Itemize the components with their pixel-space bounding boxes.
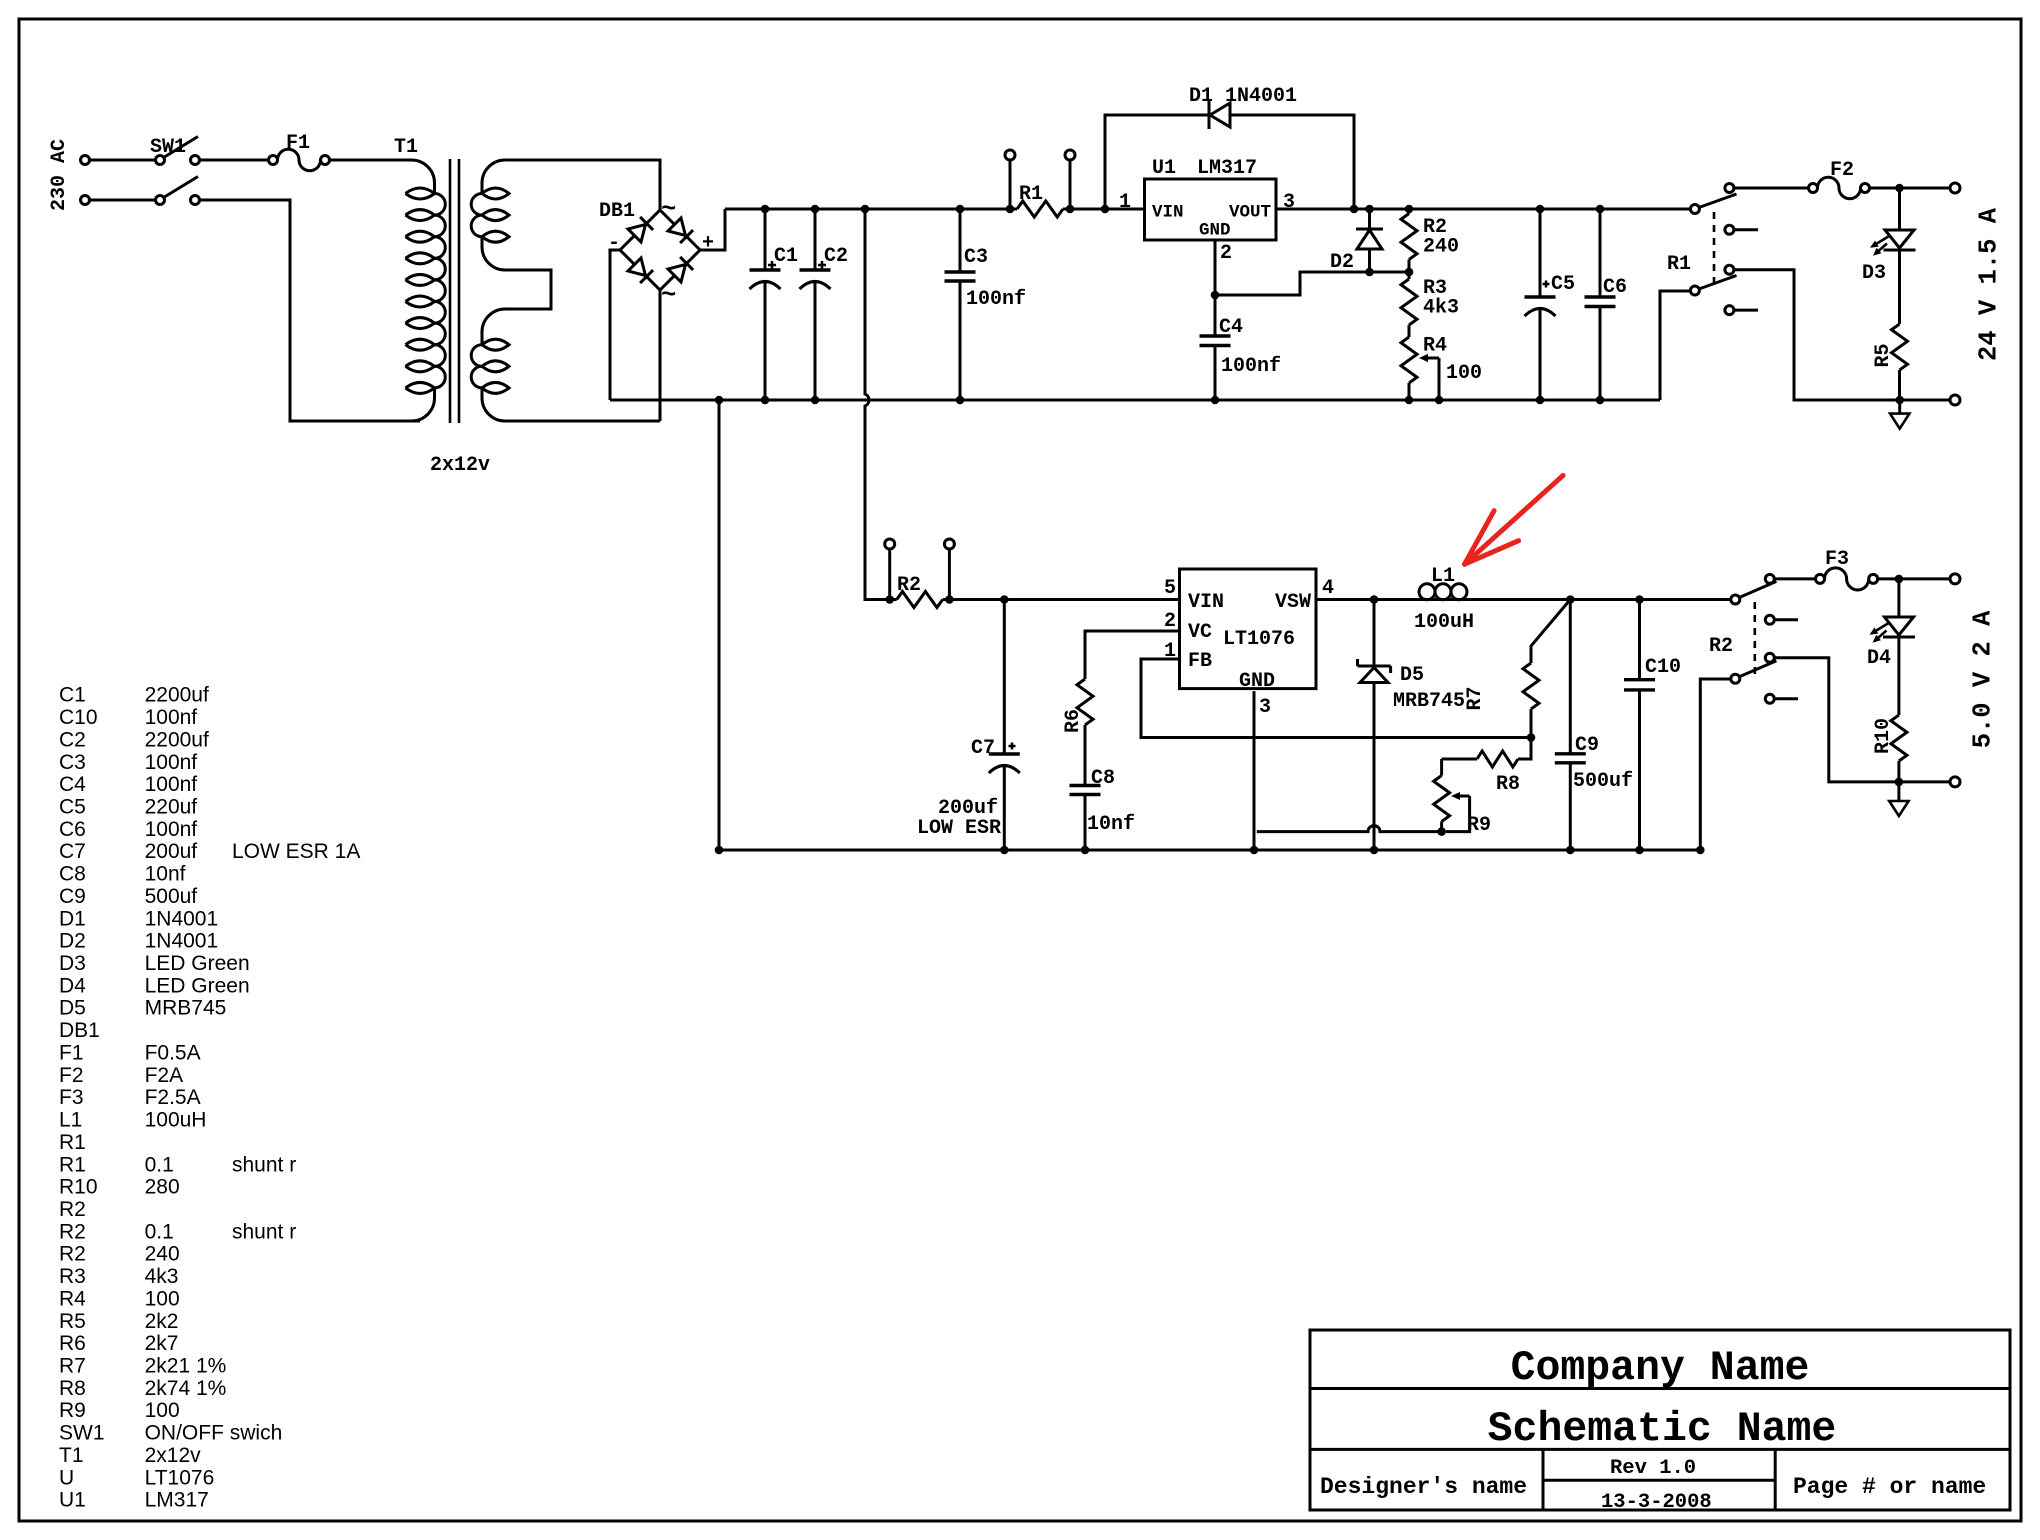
switch SW1 pole A [156,156,165,165]
svg-text:L1: L1 [59,1109,82,1132]
svg-text:R9: R9 [59,1399,86,1422]
trimmer R9 [1440,759,1443,776]
capacitor C6 [1599,209,1602,297]
junction [1895,778,1904,787]
svg-text:R7: R7 [1464,686,1487,710]
resistor R3 4k3 [1408,272,1411,279]
wire [1276,208,1690,211]
wire lower ground rail [719,679,1731,850]
wire feed to LT1076 [865,209,890,600]
svg-text:C1: C1 [774,245,798,268]
junction [1405,268,1414,277]
svg-text:C4: C4 [1219,316,1243,339]
junction [1365,205,1374,214]
svg-text:5.0 V 2 A: 5.0 V 2 A [1968,610,1997,748]
svg-text:5: 5 [1164,577,1176,600]
svg-text:MRB745: MRB745 [1393,690,1465,713]
svg-text:200uf: 200uf [145,840,198,863]
svg-text:F1: F1 [59,1042,84,1065]
svg-text:Designer's name: Designer's name [1320,1474,1527,1500]
capacitor C5 [1539,209,1542,297]
wire [90,159,156,162]
junction [1596,205,1605,214]
junction [1696,846,1705,855]
svg-text:C6: C6 [59,818,86,841]
svg-text:+: + [702,232,714,255]
junction [1527,733,1536,742]
svg-text:U: U [59,1466,74,1489]
diode D2 [1368,209,1371,230]
junction [1635,595,1644,604]
relay contacts R1 [1690,184,1758,315]
svg-text:C6: C6 [1603,276,1627,299]
svg-text:D5: D5 [59,997,86,1020]
regulator U1 LM317 [1145,179,1277,240]
resistor R6 [1077,679,1093,725]
svg-text:C9: C9 [59,885,86,908]
svg-text:1N4001: 1N4001 [145,930,219,953]
svg-text:DB1: DB1 [59,1019,100,1042]
svg-text:100nf: 100nf [145,706,198,729]
capacitor C7 [1003,600,1006,755]
svg-text:C5: C5 [59,796,86,819]
svg-text:F1: F1 [286,132,310,155]
svg-text:T1: T1 [59,1444,84,1467]
capacitor C8 [1084,784,1087,787]
svg-text:D3: D3 [59,952,86,975]
svg-text:D1: D1 [59,907,86,930]
svg-text:R2: R2 [897,574,921,597]
junction [1365,268,1374,277]
svg-text:0.1: 0.1 [145,1220,174,1243]
svg-text:C4: C4 [59,773,86,796]
svg-text:R8: R8 [59,1377,86,1400]
svg-text:C3: C3 [59,751,86,774]
svg-text:2200uf: 2200uf [145,728,209,751]
svg-text:MRB745: MRB745 [145,997,227,1020]
svg-text:R2: R2 [59,1243,86,1266]
bridge rectifier DB1 [620,210,700,290]
junction [715,846,724,855]
junction [956,396,965,405]
wire ground feed [718,400,721,850]
wire [1878,577,1950,580]
resistor R8 [1518,738,1531,760]
parts list [59,684,360,1512]
capacitor C4 [1214,295,1217,336]
wire FB net [1141,659,1531,738]
svg-text:2k7: 2k7 [145,1332,179,1355]
svg-text:R10: R10 [1872,718,1895,754]
wire [200,200,421,421]
fuse F1 [269,156,278,165]
label C2 [818,261,826,269]
svg-text:R1: R1 [59,1153,86,1176]
junction [1405,396,1414,405]
junction [1370,595,1379,604]
svg-text:F2A: F2A [145,1064,184,1087]
junction [811,396,820,405]
svg-text:~: ~ [661,281,676,310]
svg-text:C5: C5 [1551,273,1575,296]
svg-text:VOUT: VOUT [1229,203,1271,223]
LED D4 [1897,579,1900,617]
capacitor C3 [959,209,962,272]
svg-text:240: 240 [1423,236,1459,259]
svg-text:R2: R2 [59,1198,86,1221]
resistor R1 shunt [1017,201,1063,217]
svg-text:F2: F2 [1830,159,1854,182]
wire [610,250,620,400]
wire [700,209,725,250]
svg-text:LM317: LM317 [1197,157,1257,180]
svg-text:C1: C1 [59,684,86,707]
terminal output + 5V [1950,574,1960,584]
svg-text:2200uf: 2200uf [145,684,209,707]
svg-text:Page # or name: Page # or name [1793,1474,1986,1500]
svg-text:2k74 1%: 2k74 1% [145,1377,227,1400]
svg-text:R10: R10 [59,1176,98,1199]
svg-text:D2: D2 [1330,251,1354,274]
svg-text:GND: GND [1239,670,1275,693]
junction [761,205,770,214]
svg-text:C3: C3 [964,246,988,269]
junction [1435,396,1444,405]
terminal output - 5V [1950,777,1960,787]
ground [1897,782,1900,801]
wire [90,199,156,202]
junction [1895,396,1904,405]
transformer T1 core [449,159,452,423]
svg-text:C8: C8 [59,863,86,886]
transformer T1 primary [330,160,435,194]
junction [1895,575,1904,584]
svg-text:Schematic Name: Schematic Name [1488,1406,1837,1453]
capacitor C2 [814,209,817,270]
junction [1350,205,1359,214]
svg-text:1N4001: 1N4001 [145,907,219,930]
junction [1081,846,1090,855]
terminal output + 24V [1950,183,1960,193]
svg-text:24 V 1.5 A: 24 V 1.5 A [1975,207,2004,361]
svg-text:4: 4 [1322,577,1334,600]
svg-text:SW1: SW1 [150,136,186,159]
regulator U2 LT1076 [1180,569,1317,689]
annotation red arrow [1465,475,1564,564]
svg-text:R1: R1 [1667,253,1691,276]
svg-text:C7: C7 [971,737,995,760]
trimmer R4 wiper [1423,357,1439,360]
svg-text:Company Name: Company Name [1511,1345,1810,1392]
svg-text:LM317: LM317 [145,1489,209,1512]
wire R9 ground with hop [1257,826,1442,832]
svg-text:D4: D4 [1867,647,1891,670]
svg-text:2x12v: 2x12v [430,454,490,477]
junction [1566,846,1575,855]
title block [1310,1330,2010,1510]
wire GND pin [1253,691,1256,850]
test point header 2 [885,539,895,549]
svg-text:LOW ESR 1A: LOW ESR 1A [232,840,360,863]
svg-text:100: 100 [145,1287,180,1310]
svg-text:VIN: VIN [1152,203,1184,223]
svg-text:SW1: SW1 [59,1422,105,1445]
svg-text:R1: R1 [1019,183,1043,206]
svg-text:T1: T1 [394,136,418,159]
resistor R2 240 [1408,209,1411,214]
svg-text:R6: R6 [59,1332,86,1355]
trimmer R4 100 [1408,336,1411,339]
relay contacts R2 [1731,574,1798,703]
svg-text:13-3-2008: 13-3-2008 [1601,1491,1712,1514]
junction [945,595,954,604]
svg-text:500uf: 500uf [145,885,198,908]
svg-text:GND: GND [1199,221,1231,241]
junction [1566,595,1575,604]
capacitor C9 [1569,600,1572,754]
svg-text:100nf: 100nf [966,288,1026,311]
svg-text:C2: C2 [59,728,86,751]
svg-text:F0.5A: F0.5A [145,1042,201,1065]
svg-text:F3: F3 [59,1086,84,1109]
junction [715,396,724,405]
wire [659,290,662,421]
label C1 [768,261,776,269]
junction [1101,205,1110,214]
junction [1000,846,1009,855]
svg-text:100uH: 100uH [1414,611,1474,634]
junction [1211,396,1220,405]
svg-text:100nf: 100nf [145,773,198,796]
svg-text:2x12v: 2x12v [145,1444,202,1467]
svg-text:100nf: 100nf [145,818,198,841]
svg-text:D2: D2 [59,930,86,953]
svg-text:FB: FB [1188,650,1212,673]
junction [1370,846,1379,855]
label C5 [1543,281,1550,288]
junction [1895,184,1904,193]
svg-text:LED Green: LED Green [145,952,250,975]
wire [1660,291,1690,400]
resistor R2 shunt [897,592,943,608]
svg-text:100uH: 100uH [145,1109,207,1132]
svg-text:U1: U1 [1152,157,1176,180]
svg-text:D4: D4 [59,974,86,997]
svg-text:R2: R2 [1709,635,1733,658]
svg-text:R1: R1 [59,1131,86,1154]
wire [949,598,1179,601]
svg-text:L1: L1 [1431,565,1455,588]
svg-text:100: 100 [145,1399,180,1422]
svg-text:F3: F3 [1825,548,1849,571]
svg-text:R5: R5 [59,1310,86,1333]
svg-text:VSW: VSW [1275,591,1311,614]
svg-text:LOW ESR: LOW ESR [917,817,1001,840]
svg-text:2k21 1%: 2k21 1% [145,1355,227,1378]
junction [956,205,965,214]
junction [1000,595,1009,604]
svg-text:LT1076: LT1076 [145,1466,215,1489]
wire [200,159,269,162]
svg-text:C7: C7 [59,840,86,863]
inductor L1 [1316,598,1730,601]
svg-text:2: 2 [1220,242,1232,265]
svg-text:VIN: VIN [1188,591,1224,614]
svg-text:100: 100 [1446,362,1482,385]
svg-text:F2.5A: F2.5A [145,1086,201,1109]
wire ground rail with hop [610,399,1660,402]
svg-text:U1: U1 [59,1489,86,1512]
svg-text:R6: R6 [1062,709,1085,733]
svg-text:500uf: 500uf [1573,770,1633,793]
svg-text:D3: D3 [1862,262,1886,285]
svg-text:shunt r: shunt r [232,1153,296,1176]
resistor R7 [1531,600,1570,664]
wire [1774,658,1950,782]
diode D5 MRB745 [1373,600,1376,668]
wire adjust net [1215,240,1409,295]
junction [1066,205,1075,214]
fuse F3 [1816,574,1825,583]
LED D3 [1898,188,1901,230]
svg-text:C8: C8 [1091,767,1115,790]
junction [885,595,894,604]
svg-text:LED Green: LED Green [145,974,250,997]
svg-text:240: 240 [145,1243,180,1266]
svg-text:0.1: 0.1 [145,1153,174,1176]
junction [1437,827,1446,836]
terminal output - 24V [1950,395,1960,405]
svg-text:DB1: DB1 [599,200,635,223]
wire [1870,187,1951,190]
svg-text:3: 3 [1283,191,1295,214]
svg-text:C9: C9 [1575,734,1599,757]
svg-text:C2: C2 [824,245,848,268]
svg-text:10nf: 10nf [1087,813,1135,836]
diode D1 [1105,115,1354,209]
svg-text:R9: R9 [1467,814,1491,837]
junction [1211,291,1220,300]
resistor R10 [1897,637,1900,715]
terminal AC neutral [81,196,90,205]
svg-text:100nf: 100nf [1221,355,1281,378]
junction [1006,205,1015,214]
wire [725,208,1010,211]
test point header [1005,150,1015,160]
wire [1734,270,1950,400]
junction [861,205,870,214]
junction [1536,205,1545,214]
svg-text:shunt r: shunt r [232,1220,296,1243]
trimmer R9 wiper [1455,795,1470,798]
svg-text:R4: R4 [59,1287,86,1310]
svg-text:~: ~ [661,195,676,224]
svg-text:R4: R4 [1423,335,1447,358]
svg-text:4k3: 4k3 [1423,297,1459,320]
svg-text:D1 1N4001: D1 1N4001 [1189,85,1297,108]
ground [1898,400,1901,414]
wire [1734,187,1809,190]
svg-text:280: 280 [145,1176,180,1199]
svg-text:220uf: 220uf [145,796,198,819]
junction [1635,846,1644,855]
svg-text:ON/OFF swich: ON/OFF swich [145,1422,283,1445]
junction [1596,396,1605,405]
transformer T1 secondary [482,160,660,210]
svg-text:100nf: 100nf [145,751,198,774]
junction [1536,396,1545,405]
junction [761,396,770,405]
junction [1405,205,1414,214]
capacitor C1 [764,209,767,270]
svg-text:C10: C10 [59,706,98,729]
capacitor C10 [1638,600,1641,680]
switch SW1 pole B [156,196,165,205]
svg-text:R8: R8 [1496,773,1520,796]
fuse F2 [1809,184,1818,193]
svg-text:R7: R7 [59,1355,86,1378]
svg-text:1: 1 [1119,191,1131,214]
junction [1250,846,1259,855]
wire [1774,577,1815,580]
svg-text:R5: R5 [1872,343,1895,367]
svg-text:LT1076: LT1076 [1223,628,1295,651]
svg-text:D5: D5 [1400,664,1424,687]
svg-text:R2: R2 [59,1220,86,1243]
junction [811,205,820,214]
svg-text:4k3: 4k3 [145,1265,179,1288]
svg-text:230 AC: 230 AC [48,139,71,211]
svg-text:R3: R3 [59,1265,86,1288]
svg-text:F2: F2 [59,1064,84,1087]
resistor R5 [1898,250,1901,324]
wire VC net [1085,631,1179,679]
svg-text:Rev 1.0: Rev 1.0 [1610,1457,1696,1480]
svg-text:10nf: 10nf [145,863,186,886]
svg-text:3: 3 [1259,696,1271,719]
svg-text:VC: VC [1188,621,1212,644]
svg-text:2k2: 2k2 [145,1310,179,1333]
terminal AC live [81,156,90,165]
svg-text:C10: C10 [1645,656,1681,679]
